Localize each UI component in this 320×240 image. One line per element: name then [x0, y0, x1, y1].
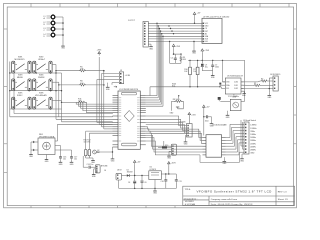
- ground ULN: [223, 159, 228, 165]
- switch SW3 MENU: [12, 74, 32, 90]
- ground LCD: [192, 41, 197, 55]
- MCU pins right: [140, 96, 146, 145]
- capacitor C10: [161, 178, 168, 183]
- ground C16: [59, 160, 64, 166]
- resistor R15: [84, 140, 91, 156]
- crystal Q2 8MHz: [93, 150, 100, 154]
- resistor R10: [184, 64, 191, 87]
- diode D2: [122, 170, 133, 177]
- ground encoder bottom: [45, 157, 50, 163]
- ground J4: [268, 88, 274, 99]
- MCU pins left: [113, 96, 119, 147]
- resistor R2: [241, 78, 273, 82]
- capacitor C7 100n: [211, 60, 219, 70]
- svg-text:Company: www.ve3clf.com: Company: www.ve3clf.com: [211, 199, 237, 201]
- wire MCU right to ULN: [146, 127, 203, 155]
- title block text: [184, 189, 289, 206]
- ground J2: [148, 44, 153, 50]
- encoder left pins: [31, 141, 38, 152]
- svg-text:1N5819: 1N5819: [127, 172, 133, 174]
- ground TCXO: [226, 111, 231, 119]
- svg-text:FUNC: FUNC: [17, 95, 23, 97]
- wire vertical bundle left of MCU: [97, 57, 113, 129]
- switch SW5 FUNC: [12, 93, 32, 110]
- LCD module LCD1: [202, 17, 229, 44]
- junction rail: [189, 60, 223, 61]
- svg-text:10u: 10u: [205, 66, 208, 68]
- MCU pin name marks: [119, 98, 140, 141]
- wire caps bottom: [202, 71, 212, 73]
- svg-text:LF33CV: LF33CV: [150, 169, 157, 171]
- svg-text:C11: C11: [179, 181, 182, 183]
- svg-text:TITLE:: TITLE:: [185, 189, 192, 191]
- frame outer border: [4, 3, 297, 207]
- svg-text:100n: 100n: [215, 66, 219, 68]
- jack LED3: [44, 26, 56, 32]
- wire clk2: [241, 78, 273, 89]
- svg-text:10n: 10n: [63, 159, 66, 161]
- svg-text:SCL: SCL: [172, 86, 176, 88]
- arrow boot: [114, 86, 117, 88]
- resistor R5: [56, 67, 104, 72]
- wire TFT lines: [148, 23, 202, 41]
- wire si5351 gnd stub: [232, 94, 237, 98]
- wire I2C bus: [150, 85, 225, 95]
- ground encoder left: [29, 152, 34, 158]
- jack LED4: [44, 32, 56, 38]
- resistor R1: [241, 83, 273, 87]
- capacitor C14: [83, 156, 95, 169]
- junction R5 R6 bus: [55, 70, 104, 86]
- MCU U1 STM32: [118, 89, 140, 149]
- svg-text:U5 Si5351A-B-GT: U5 Si5351A-B-GT: [227, 75, 244, 78]
- capacitor C16: [59, 155, 66, 160]
- svg-text:C10: C10: [161, 181, 164, 183]
- wire switch rows: [10, 62, 62, 122]
- ground SWD: [184, 139, 189, 145]
- svg-text:+3V3: +3V3: [191, 115, 195, 117]
- connector J2 TFT header: [128, 20, 148, 47]
- junction I2C pullups: [189, 86, 220, 87]
- switch SW1 MODE/SPL: [12, 57, 32, 74]
- ground J6: [92, 172, 97, 178]
- svg-text:J8 5V: J8 5V: [117, 169, 122, 171]
- switch SW6 VFO A/B-A/D: [33, 93, 53, 110]
- svg-text:18MHz: 18MHz: [250, 140, 256, 142]
- connector J9 SWD: [179, 121, 192, 137]
- wire NRST from LCD: [170, 42, 176, 64]
- title block: [183, 186, 295, 205]
- svg-text:100n: 100n: [205, 121, 209, 123]
- svg-text:1.8 TFT: 1.8 TFT: [128, 20, 136, 22]
- power +3V3 NRST: [172, 44, 181, 55]
- svg-text:VFO/BFO Synthesizer STM32 1.8": VFO/BFO Synthesizer STM32 1.8" TFT LCD: [197, 190, 273, 194]
- wire 3v3 rail: [188, 60, 245, 63]
- connector J6 BT/USB: [95, 165, 108, 173]
- IC U5 Si5351: [219, 75, 244, 95]
- resistor R9 NRST: [175, 53, 186, 62]
- wire NRST bottom: [175, 61, 181, 63]
- ground crystal: [91, 158, 96, 164]
- capacitor C6 input: [141, 181, 147, 185]
- svg-text:21MHz: 21MHz: [250, 143, 256, 145]
- svg-text:CS: CS: [205, 28, 207, 30]
- wire TFT bundle down: [146, 23, 163, 106]
- svg-text:14MHz: 14MHz: [250, 137, 256, 139]
- resistor R7: [193, 64, 199, 87]
- connector J7 key: [171, 144, 176, 155]
- svg-text:C4: C4: [128, 182, 130, 184]
- junction crystal: [112, 151, 113, 152]
- ground J7: [167, 151, 172, 159]
- power +3V3 regulator: [168, 162, 177, 166]
- connector J4 VFO/BFO out: [270, 74, 281, 91]
- wire ULN outputs to band connector: [226, 120, 245, 155]
- capacitor C9 10u: [201, 60, 208, 70]
- svg-text:3.5MHz: 3.5MHz: [250, 128, 256, 130]
- ground MCU bottom: [111, 156, 116, 162]
- svg-text:24MHz: 24MHz: [250, 146, 256, 148]
- capacitor C5 NRST: [171, 54, 177, 61]
- svg-text:J6: J6: [104, 170, 106, 172]
- svg-text:& UV7QAE: & UV7QAE: [185, 203, 196, 206]
- ground regulator: [153, 188, 158, 194]
- svg-text:+3.3B: +3.3B: [125, 75, 131, 77]
- frame inner border: [7, 7, 293, 206]
- svg-text:REV: 1.3: REV: 1.3: [278, 191, 287, 193]
- capacitor C11: [175, 178, 182, 183]
- resistor R13: [158, 141, 171, 149]
- IC U4 ULN2003: [203, 124, 227, 158]
- wire ULN ground loop: [200, 152, 244, 162]
- wire regulator: [119, 164, 177, 188]
- svg-text:10n: 10n: [74, 159, 77, 161]
- wire J6: [94, 169, 96, 172]
- svg-text:CLK0: CLK0: [234, 82, 238, 84]
- capacitor TCXO bypass: [218, 97, 231, 101]
- encoder right pins: [47, 124, 113, 157]
- svg-text:Sheet: 1/1: Sheet: 1/1: [278, 198, 289, 201]
- svg-text:TCXO 26MHz: TCXO 26MHz: [228, 96, 239, 98]
- frame ticks: [4, 3, 297, 207]
- svg-text:C14 10u: C14 10u: [87, 164, 94, 166]
- capacitor C4 input electrolytic: [128, 181, 136, 184]
- junction jacks: [62, 22, 64, 36]
- jack LED1: [44, 14, 56, 19]
- svg-text:SCL: SCL: [226, 88, 229, 90]
- capacitor C17: [70, 155, 77, 160]
- ground C17: [70, 160, 75, 166]
- capacitor C13 ULN: [204, 115, 212, 122]
- wire SWD: [146, 116, 187, 139]
- oscillator TCXO: [228, 96, 241, 111]
- ground C13: [210, 117, 215, 127]
- connector J5 band switch: [243, 119, 257, 154]
- ground si5351 clk pin: [241, 91, 247, 97]
- wire bus switches to MCU: [10, 73, 113, 123]
- junction regulator: [134, 173, 170, 189]
- resistor R8 boot pulldown: [170, 95, 184, 114]
- ground rail caps: [211, 73, 216, 79]
- svg-text:1.8MHz: 1.8MHz: [250, 125, 256, 127]
- power +3V3 SWD: [188, 113, 196, 124]
- encoder RE1: [38, 134, 55, 155]
- power +5V input: [133, 160, 141, 164]
- svg-text:C6: C6: [144, 182, 146, 184]
- svg-text:Date: 08-04-2025 Drawn B: Date: 08-04-2025 Drawn By: VE3CIF: [211, 203, 253, 206]
- svg-text:U1 STM32F103C8T6: U1 STM32F103C8T6: [119, 89, 139, 91]
- svg-text:28MHz: 28MHz: [250, 150, 256, 152]
- wire jack bus: [56, 17, 63, 44]
- svg-text:VFO A/B-A/D: VFO A/B-A/D: [35, 94, 47, 97]
- svg-text:RST: RST: [205, 31, 208, 33]
- resistor R12: [88, 149, 91, 155]
- svg-text:BT/USB: BT/USB: [101, 165, 108, 167]
- power +3V3 top middle: [97, 50, 103, 56]
- power +5V LCD: [193, 12, 201, 24]
- power +3V3 rail: [201, 49, 210, 61]
- connector J8 DC IN: [116, 169, 122, 180]
- svg-text:J4 VFO/BFO: J4 VFO/BFO: [270, 74, 281, 76]
- svg-text:Designed for :: Designed for :: [184, 197, 198, 200]
- svg-text:C5: C5: [171, 58, 173, 60]
- svg-text:DN/FM: DN/FM: [38, 77, 45, 79]
- svg-text:U4 ULN2003AN: U4 ULN2003AN: [212, 124, 227, 127]
- switch SW2 UP/A=T: [33, 57, 53, 74]
- jack LED2: [44, 20, 56, 26]
- wire si5351 supply: [223, 60, 245, 101]
- power +5V ULN: [203, 105, 211, 135]
- wire BOOT connector: [97, 74, 119, 85]
- wire fan to MCU left pins: [76, 102, 112, 112]
- svg-text:MODE/SPL: MODE/SPL: [15, 59, 26, 61]
- svg-text:UP/A=T: UP/A=T: [38, 58, 46, 61]
- ground band switch: [240, 154, 245, 162]
- regulator U6 LF33CV: [149, 167, 162, 180]
- svg-text:GND: GND: [250, 153, 255, 155]
- svg-text:7MHz: 7MHz: [250, 131, 255, 133]
- svg-text:10MHz: 10MHz: [250, 134, 256, 136]
- junction switch grid: [9, 72, 62, 109]
- junction TFT bundle: [156, 23, 174, 43]
- ground BOOT: [106, 85, 111, 91]
- ground jack bus: [61, 44, 66, 50]
- resistor R6: [59, 81, 104, 86]
- resistor R11: [61, 99, 87, 104]
- wire crystal cluster: [86, 131, 113, 158]
- switch SW4 DN/FM: [33, 74, 53, 90]
- connector J3 BOOT: [119, 70, 130, 84]
- svg-text:CLK2: CLK2: [234, 88, 238, 90]
- svg-text:CLK1: CLK1: [234, 85, 238, 87]
- svg-text:R13: R13: [165, 145, 168, 147]
- svg-text:MENU: MENU: [17, 77, 23, 79]
